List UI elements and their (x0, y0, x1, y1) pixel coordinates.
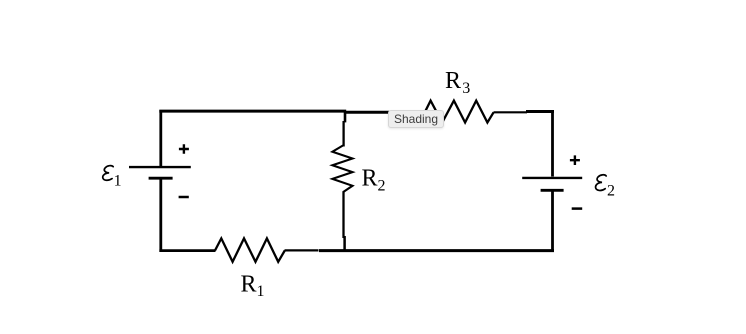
wire right vertical lower (EMF2 - terminal to bottom node) (551, 191, 554, 252)
resistor R1 (zigzag in bottom branch) (215, 238, 285, 261)
battery EMF2 minus sign (572, 207, 583, 210)
wire right vertical upper (top node to EMF2 + terminal) (551, 110, 554, 177)
svg-text:R1: R1 (241, 271, 265, 300)
wire bottom (node between R1, R2, EMF2) (319, 249, 554, 252)
wire top (node between EMF1 and R2 branch) (159, 110, 346, 113)
shading tooltip overlay (388, 110, 444, 128)
battery EMF2 plus sign (570, 155, 580, 165)
wire top (node between R2 branch and R3) (344, 111, 425, 114)
wire middle vertical upper (top node to R2) (342, 121, 344, 147)
battery EMF1 short plate (-) (149, 177, 173, 180)
wire bottom-left (node to R1) (159, 249, 215, 252)
wire bottom-middle (R1 lead) (285, 249, 319, 251)
wire left vertical lower (EMF1 - terminal to bottom node) (159, 179, 162, 253)
wire left vertical upper (EMF1 + terminal to top node) (159, 110, 162, 167)
battery EMF1 long plate (+) (129, 166, 191, 168)
resistor R2 (zigzag in middle branch) (332, 146, 352, 193)
wire top-right (between R3 and EMF2) (494, 111, 528, 113)
battery EMF1 plus sign (179, 144, 189, 154)
junction stub at bottom node of R2 branch (343, 236, 346, 252)
svg-text:R3: R3 (445, 68, 470, 97)
battery EMF1 minus sign (179, 196, 189, 199)
EMF source label E2 (596, 175, 615, 200)
junction stub at top node of R2 branch (344, 112, 347, 123)
battery EMF2 short plate (-) (541, 189, 564, 192)
svg-text:1: 1 (114, 172, 122, 189)
resistor R3 (zigzag in top-right branch) (425, 101, 494, 123)
svg-text:R2: R2 (362, 166, 386, 195)
battery EMF2 long plate (+) (522, 177, 582, 179)
svg-text:2: 2 (607, 182, 615, 199)
wire middle vertical lower (R2 to bottom wire) (342, 192, 344, 239)
EMF source label E1 (103, 166, 122, 190)
